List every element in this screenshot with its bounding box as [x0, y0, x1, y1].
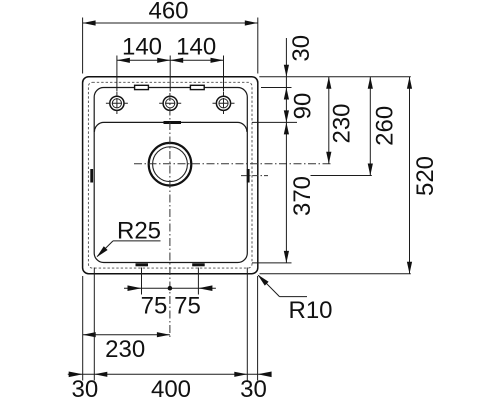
- svg-text:R10: R10: [288, 297, 332, 324]
- overflow slot: [164, 121, 182, 124]
- dimension 140 right: [170, 34, 223, 92]
- dimension 30 top right: [284, 35, 315, 263]
- dimension 140 left: [117, 34, 170, 92]
- svg-text:370: 370: [289, 176, 316, 216]
- svg-text:460: 460: [148, 0, 188, 25]
- drain horizontal center line: [134, 163, 332, 165]
- svg-text:230: 230: [105, 336, 145, 363]
- svg-text:260: 260: [372, 106, 399, 146]
- faucet hole right: [213, 92, 235, 115]
- svg-text:30: 30: [288, 35, 315, 62]
- drain: [149, 143, 192, 186]
- svg-text:90: 90: [290, 93, 317, 120]
- svg-text:140: 140: [122, 34, 162, 61]
- svg-text:140: 140: [176, 34, 216, 61]
- countertop cutout dashed line: [88, 82, 252, 268]
- faucet hole left: [106, 92, 128, 115]
- dimension 230 right: [326, 77, 355, 164]
- side clip right: [247, 169, 250, 183]
- extension line bottom edge right: [260, 273, 411, 275]
- svg-text:30: 30: [72, 376, 99, 400]
- label R25: [97, 217, 162, 257]
- extension line clip right: [311, 175, 372, 177]
- top clip right: [190, 85, 204, 89]
- svg-text:230: 230: [329, 103, 356, 143]
- top clip left: [135, 85, 149, 89]
- dimension 75 75: [124, 268, 216, 320]
- svg-text:30: 30: [240, 376, 267, 400]
- inner rim edge R25: [94, 88, 247, 263]
- dimension 520: [407, 77, 439, 274]
- svg-text:75: 75: [141, 292, 168, 319]
- svg-text:75: 75: [174, 292, 201, 319]
- side clip right center line: [241, 175, 268, 177]
- dimension 90: [284, 93, 317, 123]
- extension line bowl bottom right: [252, 262, 292, 264]
- extension line rim right: [261, 87, 292, 89]
- vertical center line: [169, 93, 171, 340]
- side clip left: [90, 169, 93, 183]
- svg-text:R25: R25: [117, 217, 161, 244]
- bowl top edge: [94, 122, 247, 131]
- dimension 260: [368, 77, 399, 176]
- bottom clip right: [192, 263, 205, 266]
- svg-text:520: 520: [412, 156, 439, 196]
- bottom clip left: [136, 263, 149, 266]
- dimension 30 400 30 bottom: [68, 268, 272, 400]
- svg-text:400: 400: [151, 376, 191, 400]
- dimension 370: [284, 122, 316, 263]
- faucet hole center: [159, 96, 181, 110]
- label R10: [258, 275, 333, 325]
- extension line top edge right: [259, 76, 411, 78]
- dimension 230 bottom: [83, 276, 170, 381]
- dimension 460: [83, 0, 258, 74]
- sink outer edge: [83, 77, 258, 274]
- extension line bowl top right: [252, 121, 297, 123]
